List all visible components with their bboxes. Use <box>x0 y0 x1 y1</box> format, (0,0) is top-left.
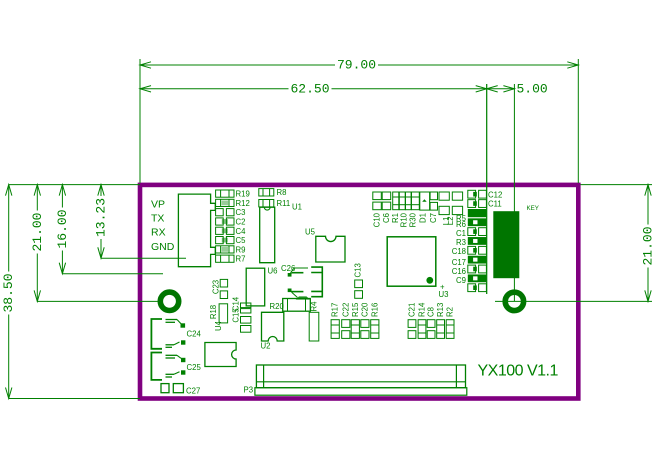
svg-text:R11: R11 <box>277 199 291 208</box>
svg-text:C7: C7 <box>429 213 438 223</box>
svg-text:C10: C10 <box>373 212 382 227</box>
dimension 79.00 top <box>140 64 578 66</box>
pad row <box>468 209 487 217</box>
dimension 21.00 left <box>36 185 38 302</box>
svg-text:TX: TX <box>151 213 164 225</box>
svg-text:C24: C24 <box>187 330 202 339</box>
R5 <box>468 218 487 226</box>
resistor R30 <box>406 192 412 210</box>
R3 <box>468 246 476 254</box>
svg-text:YX100 V1.1: YX100 V1.1 <box>478 363 559 380</box>
svg-text:U3: U3 <box>439 290 449 299</box>
svg-text:R7: R7 <box>236 255 246 264</box>
svg-text:D1: D1 <box>419 213 428 223</box>
svg-text:R8: R8 <box>277 188 287 197</box>
capacitor C25 <box>151 353 162 380</box>
svg-text:KEY: KEY <box>527 205 539 212</box>
capacitor C10 <box>373 192 382 200</box>
R12 <box>216 199 234 206</box>
svg-text:C12: C12 <box>488 190 502 199</box>
right mounting hole <box>505 292 523 310</box>
IC U1 <box>260 207 275 263</box>
C2 <box>216 218 224 225</box>
svg-text:C22: C22 <box>341 303 350 317</box>
svg-text:R3: R3 <box>456 238 466 247</box>
svg-text:R13: R13 <box>436 303 445 317</box>
extension lines top <box>139 59 141 183</box>
diode D1 <box>420 192 430 210</box>
svg-text:C21: C21 <box>408 303 417 317</box>
svg-text:21.00: 21.00 <box>641 226 656 265</box>
svg-text:P3: P3 <box>244 386 254 395</box>
dimension 16.00 left <box>61 185 63 274</box>
resistor R11 <box>259 200 274 207</box>
capacitor C7 <box>430 192 437 200</box>
capacitor C24 <box>151 319 162 349</box>
svg-text:62.50: 62.50 <box>290 81 329 96</box>
left extension line at board top <box>9 184 140 186</box>
svg-text:U5: U5 <box>305 228 316 237</box>
svg-text:C18: C18 <box>452 247 466 256</box>
C17 <box>468 265 476 273</box>
svg-text:5.00: 5.00 <box>517 81 548 96</box>
svg-text:R16: R16 <box>370 303 379 317</box>
svg-text:21.00: 21.00 <box>30 212 45 251</box>
dimension 13.23 left <box>100 185 102 259</box>
KEY button <box>493 211 519 278</box>
extension line through right hole <box>495 300 652 302</box>
svg-text:VP: VP <box>151 199 165 211</box>
C16 <box>468 274 487 282</box>
C4 <box>216 227 224 234</box>
svg-text:C15: C15 <box>232 308 241 323</box>
R9 <box>216 246 234 253</box>
svg-text:RX: RX <box>151 227 166 239</box>
svg-text:C13: C13 <box>354 263 363 277</box>
dimension 21.00 right <box>581 184 653 186</box>
IC U4 body <box>205 343 236 367</box>
resistor (4th in row) <box>412 192 420 210</box>
svg-text:13.23: 13.23 <box>94 198 109 237</box>
svg-text:C23: C23 <box>212 280 221 294</box>
svg-text:R4: R4 <box>310 301 319 312</box>
svg-text:C16: C16 <box>452 267 466 276</box>
svg-text:38.50: 38.50 <box>1 273 16 312</box>
svg-text:C9: C9 <box>456 276 466 285</box>
svg-text:U4: U4 <box>214 320 223 331</box>
inductor L2 <box>452 192 462 200</box>
C18 <box>468 256 487 264</box>
svg-text:C4: C4 <box>236 227 247 236</box>
C9 <box>468 284 476 292</box>
svg-text:C25: C25 <box>187 363 202 372</box>
svg-text:R6: R6 <box>456 220 466 229</box>
connector P1 outline <box>178 194 215 267</box>
C1 <box>468 237 487 245</box>
C5 <box>216 237 224 244</box>
svg-text:C27: C27 <box>186 387 200 396</box>
connector P3 <box>256 365 465 388</box>
IC U3 <box>387 237 436 286</box>
svg-text:R17: R17 <box>331 303 340 317</box>
dimension 62.50 <box>140 88 487 90</box>
R7 <box>216 255 234 262</box>
svg-text:C2: C2 <box>236 218 246 227</box>
svg-text:R12: R12 <box>236 199 250 208</box>
svg-text:C6: C6 <box>382 213 391 223</box>
svg-text:C11: C11 <box>488 200 502 209</box>
svg-text:GND: GND <box>151 241 175 253</box>
IC U5 <box>316 236 345 262</box>
C3 <box>216 209 224 216</box>
dimension 5.00 <box>487 86 498 92</box>
svg-text:C1: C1 <box>456 229 466 238</box>
IC U6 <box>246 268 265 306</box>
svg-text:C5: C5 <box>236 236 247 245</box>
svg-text:U2: U2 <box>261 342 271 351</box>
svg-text:R18: R18 <box>209 305 218 319</box>
C12 <box>468 190 476 198</box>
svg-text:C17: C17 <box>452 258 466 267</box>
resistor R1 <box>393 192 399 210</box>
svg-text:R9: R9 <box>236 245 246 254</box>
left mounting hole <box>160 292 178 310</box>
svg-text:R19: R19 <box>236 190 250 199</box>
svg-text:U6: U6 <box>268 267 278 276</box>
svg-text:U1: U1 <box>292 203 302 212</box>
resistor R10 <box>399 192 405 210</box>
IC U2 <box>262 312 284 341</box>
extension line redraw over column <box>486 84 488 294</box>
svg-text:R30: R30 <box>409 212 418 227</box>
C11 <box>468 200 476 208</box>
svg-text:C20: C20 <box>360 302 369 317</box>
R6 <box>468 228 476 236</box>
svg-text:16.00: 16.00 <box>55 209 70 248</box>
svg-text:R14: R14 <box>418 302 427 317</box>
PCB board outline <box>140 185 578 399</box>
svg-text:C3: C3 <box>236 208 246 217</box>
capacitor C6 <box>382 192 391 200</box>
svg-text:79.00: 79.00 <box>337 58 376 73</box>
svg-text:C8: C8 <box>427 307 436 317</box>
svg-text:R2: R2 <box>446 307 455 317</box>
resistor R8 <box>259 189 274 196</box>
inductor L1 <box>439 192 449 200</box>
svg-text:R15: R15 <box>351 302 360 317</box>
svg-text:R10: R10 <box>400 212 409 227</box>
R19 <box>216 190 234 197</box>
capacitor C27 <box>161 384 169 393</box>
svg-text:L2: L2 <box>446 217 455 226</box>
dimension 38.50 left <box>8 185 10 399</box>
